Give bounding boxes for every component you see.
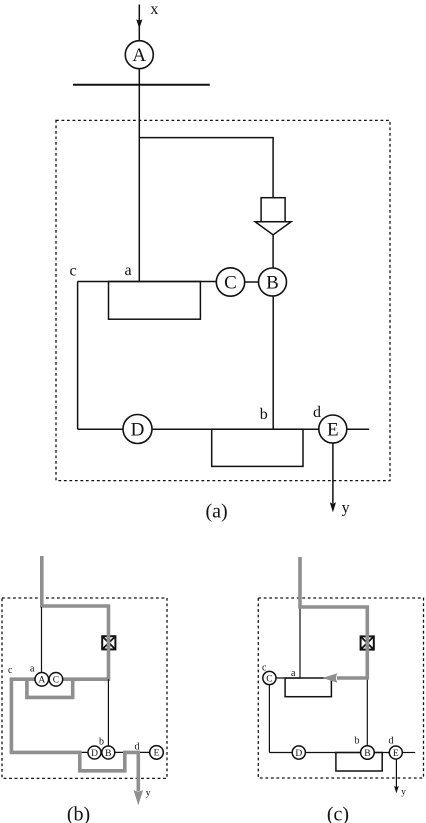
meter A xyxy=(125,41,153,69)
block rect below a (c) xyxy=(285,678,331,697)
svg-text:B: B xyxy=(105,749,111,759)
dashed boundary (c) xyxy=(258,598,423,778)
svg-text:a: a xyxy=(291,668,296,679)
wire E right stub xyxy=(347,428,369,430)
wire a vertical (c) xyxy=(299,607,301,678)
meter B (c) xyxy=(361,746,375,760)
svg-text:E: E xyxy=(327,420,339,441)
converter triangle xyxy=(255,222,291,235)
svg-text:y: y xyxy=(401,787,406,797)
svg-text:E: E xyxy=(154,749,160,759)
meter D (b) xyxy=(88,746,101,759)
svg-text:d: d xyxy=(313,404,321,421)
block rect below b (c) xyxy=(336,753,382,772)
block rect below a xyxy=(109,282,201,320)
svg-text:d: d xyxy=(389,735,394,746)
meter C xyxy=(216,268,244,296)
svg-text:C: C xyxy=(224,273,237,294)
svg-text:b: b xyxy=(260,406,268,423)
bottom wire (c) xyxy=(269,752,389,754)
converter square xyxy=(261,198,285,222)
meter E xyxy=(319,415,347,443)
meter E (b) xyxy=(150,746,164,760)
wire C to a (c) xyxy=(276,677,300,679)
svg-text:B: B xyxy=(364,749,370,759)
svg-text:b: b xyxy=(355,736,360,747)
svg-text:E: E xyxy=(393,749,399,759)
gray arrowhead into a (c) xyxy=(323,673,338,683)
dashed boundary (a) xyxy=(56,120,390,480)
svg-text:b: b xyxy=(99,737,104,748)
bottom wire D to E xyxy=(152,428,319,430)
wire A down through busbar to node a xyxy=(138,69,140,282)
svg-text:C: C xyxy=(266,674,272,684)
wire c down xyxy=(77,282,79,430)
wire c to C xyxy=(78,281,217,283)
wire branch to converter xyxy=(139,138,273,198)
dashed boundary (b) xyxy=(2,598,167,778)
svg-text:(c): (c) xyxy=(327,804,349,823)
wire C down (c) xyxy=(268,685,270,753)
svg-text:D: D xyxy=(131,420,145,441)
svg-text:x: x xyxy=(150,1,158,18)
bottom wire left of D xyxy=(78,428,123,430)
svg-text:y: y xyxy=(342,500,350,517)
wire b vertical (c) xyxy=(366,678,368,746)
block rect below b xyxy=(212,429,303,466)
crossed box (c) xyxy=(361,636,374,649)
input arrow x xyxy=(136,5,142,41)
gray loop below A C (b) xyxy=(27,679,73,697)
svg-text:A: A xyxy=(38,676,45,686)
svg-text:B: B xyxy=(266,273,279,294)
meter A (b) xyxy=(35,673,49,687)
gray flow path (b) xyxy=(11,556,138,791)
svg-text:D: D xyxy=(295,749,302,759)
svg-text:(a): (a) xyxy=(205,500,227,522)
meter B xyxy=(259,268,287,296)
svg-text:(b): (b) xyxy=(67,804,90,823)
meter D (c) xyxy=(292,746,305,759)
gray flow path (c) xyxy=(300,557,367,678)
wire junction down to B (b) xyxy=(107,679,109,746)
svg-text:D: D xyxy=(91,749,98,759)
wire C to B xyxy=(245,281,259,283)
busbar xyxy=(73,84,210,86)
svg-text:d: d xyxy=(135,741,140,752)
wire triangle to B xyxy=(272,235,274,268)
svg-text:a: a xyxy=(30,664,35,675)
meter C (b) xyxy=(49,673,63,687)
svg-text:A: A xyxy=(132,45,146,66)
crossed box (b) xyxy=(102,636,115,649)
output arrow y (c) xyxy=(394,759,399,793)
meter C (c) xyxy=(263,671,276,684)
svg-text:c: c xyxy=(8,665,13,676)
wire E right stub (c) xyxy=(402,752,415,754)
output arrow y xyxy=(330,443,336,512)
svg-text:c: c xyxy=(70,263,77,280)
meter E (c) xyxy=(389,746,402,759)
meter D xyxy=(123,415,152,444)
wire B down to node b xyxy=(272,296,274,429)
svg-text:C: C xyxy=(53,676,59,686)
wire a vertical (b) xyxy=(41,607,43,673)
svg-text:a: a xyxy=(125,262,132,279)
bottom wire (b) xyxy=(80,751,150,753)
meter B (b) xyxy=(102,746,115,759)
svg-text:y: y xyxy=(146,789,151,799)
gray output arrowhead y (b) xyxy=(134,790,144,805)
